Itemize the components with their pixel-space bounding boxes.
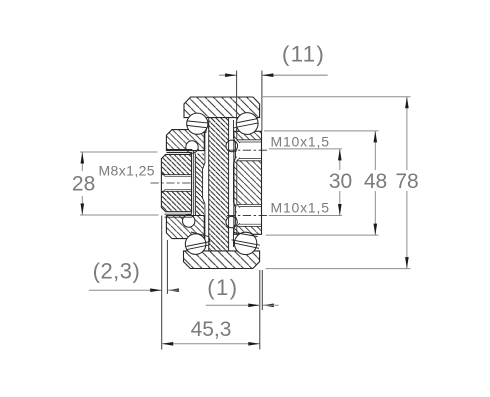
svg-text:48: 48 [364,170,387,193]
svg-text:(11): (11) [282,42,325,67]
svg-text:M10x1,5: M10x1,5 [271,200,330,216]
svg-text:28: 28 [72,173,95,196]
svg-text:45,3: 45,3 [191,318,232,341]
svg-text:78: 78 [395,170,418,193]
svg-text:(1): (1) [207,275,238,300]
svg-text:M8x1,25: M8x1,25 [99,163,156,179]
svg-text:30: 30 [329,170,352,193]
svg-text:(2,3): (2,3) [93,259,141,284]
svg-text:M10x1,5: M10x1,5 [271,134,330,150]
